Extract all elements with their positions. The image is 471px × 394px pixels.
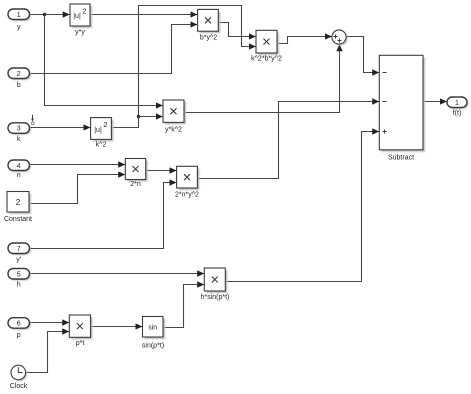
svg-text:4: 4	[17, 163, 21, 170]
wire junction down to y*k^2 input1	[45, 15, 163, 106]
wire constant to 2*n input2	[29, 175, 125, 204]
svg-text:2*n: 2*n	[130, 181, 141, 188]
inport 3 k	[8, 123, 31, 143]
svg-text:k^2: k^2	[96, 142, 107, 149]
product block y*k^2	[163, 100, 186, 134]
trigonometry block sin	[142, 317, 165, 350]
svg-text:5: 5	[17, 271, 21, 278]
constant block value 2	[4, 192, 32, 224]
svg-text:Subtract: Subtract	[388, 155, 414, 162]
clock block	[10, 365, 28, 390]
svg-text:2: 2	[16, 198, 21, 207]
wire k^2*b*y^2 out to sum	[277, 37, 332, 44]
abs-square block k^2	[91, 118, 114, 149]
svg-text:y*k^2: y*k^2	[165, 127, 182, 134]
product block 2*n*y^2	[175, 166, 199, 198]
inport 2 b	[8, 68, 31, 89]
wire port1 to y*y	[30, 14, 70, 16]
wire port5 h to h*sin input1	[30, 273, 205, 275]
wire port7 y' to 2*n*y^2 input2	[30, 183, 177, 249]
inport 4 n	[8, 160, 31, 179]
node junction on port1 wire	[43, 13, 46, 16]
svg-text:y': y'	[16, 257, 21, 264]
wire 2*n*y^2 out to subtract input2	[197, 102, 379, 179]
product block k^2*b*y^2	[251, 30, 282, 62]
svg-text:y: y	[17, 24, 21, 31]
svg-text:b*y^2: b*y^2	[200, 35, 217, 42]
svg-text:y*y: y*y	[75, 29, 85, 36]
svg-text:2: 2	[17, 71, 21, 78]
wire port3 k to k^2	[30, 127, 91, 129]
wire p*t out to sin	[91, 326, 143, 328]
svg-text:b: b	[17, 82, 21, 89]
product block 2*n	[125, 159, 147, 189]
wire port4 n to 2*n input1	[30, 164, 126, 166]
wire b*y^2 out to k^2*b*y^2 input1	[218, 23, 255, 37]
svg-text:1: 1	[455, 100, 459, 107]
wire clock to p*t input2	[26, 332, 69, 373]
node junction on k^2 riser	[137, 115, 140, 118]
svg-text:sin: sin	[148, 324, 157, 331]
annotation anchor icon	[31, 115, 34, 125]
inport 1 y	[8, 9, 31, 31]
wire k^2 out up over to k^2*b*y^2 input2	[111, 6, 255, 128]
product block h*sin(p*t)	[201, 268, 230, 301]
svg-text:7: 7	[17, 246, 21, 253]
svg-text:f(t): f(t)	[453, 110, 462, 117]
wire sin out to h*sin input2	[163, 285, 204, 328]
product block b*y^2	[198, 9, 221, 41]
svg-text:p: p	[17, 332, 21, 339]
wire 2*n out to 2*n*y^2 input1	[146, 170, 177, 172]
svg-text:p*t: p*t	[76, 340, 85, 347]
svg-text:k^2*b*y^2: k^2*b*y^2	[251, 56, 282, 63]
svg-text:n: n	[17, 172, 21, 179]
svg-text:Clock: Clock	[10, 383, 28, 390]
wire h*sin out to subtract input3	[225, 132, 379, 282]
inport 7 y'	[8, 243, 31, 264]
sum block	[332, 30, 348, 46]
subtract block	[379, 55, 425, 161]
svg-text:1: 1	[17, 12, 21, 19]
abs-square block y*y	[70, 4, 92, 36]
wire port2 b to b*y^2 input2	[30, 25, 198, 74]
wire sum out to subtract input1	[346, 37, 379, 73]
inport 6 p	[8, 318, 31, 339]
wire y*y out to b*y^2 input1	[90, 14, 197, 16]
svg-text:h: h	[17, 282, 21, 289]
wire junction to y*k^2 input2	[139, 116, 163, 118]
svg-text:2: 2	[103, 120, 107, 129]
wire subtract out to outport	[423, 101, 447, 103]
svg-text:sin(p*t): sin(p*t)	[142, 343, 164, 350]
wire y*k^2 out to sum bottom input	[184, 45, 340, 113]
svg-text:3: 3	[17, 126, 21, 133]
inport 5 h	[8, 269, 31, 289]
wire port6 p to p*t input1	[30, 322, 70, 324]
svg-text:|u|: |u|	[73, 13, 81, 20]
outport 1 f(t)	[447, 97, 469, 117]
svg-text:6: 6	[17, 321, 21, 328]
svg-text:2*n*y^2: 2*n*y^2	[175, 192, 199, 199]
svg-text:|u|: |u|	[94, 127, 102, 134]
svg-text:h*sin(p*t): h*sin(p*t)	[201, 294, 230, 301]
svg-text:k: k	[17, 136, 21, 143]
svg-text:2: 2	[82, 7, 86, 16]
svg-text:Constant: Constant	[4, 216, 32, 223]
product block p*t	[69, 315, 92, 347]
